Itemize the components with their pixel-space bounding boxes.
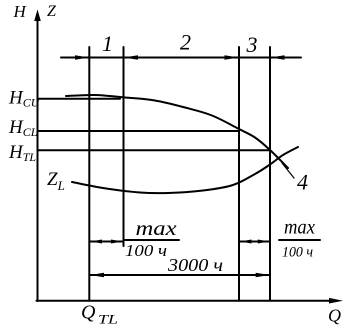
H_CL level line	[38, 130, 240, 132]
x-axis Q	[37, 300, 337, 302]
long double arrow 3000h	[90, 274, 270, 276]
H_CU level line	[38, 98, 121, 100]
fraction bar left max/100h	[125, 239, 179, 241]
y-axis arrowhead	[34, 10, 41, 22]
double arrow span 1 (max/100h left)	[90, 241, 123, 243]
svg-text:Q: Q	[328, 306, 341, 326]
svg-text:4: 4	[297, 170, 308, 195]
x-axis arrowhead	[329, 298, 343, 304]
H_TL level line	[38, 149, 271, 151]
vertical line 2	[123, 47, 125, 246]
svg-text:2: 2	[180, 30, 191, 55]
svg-text:3: 3	[246, 32, 258, 57]
vertical line 4	[269, 47, 271, 301]
y-axis H/Z	[37, 16, 39, 301]
double arrow span 3 (max/100h right)	[240, 241, 270, 243]
svg-text:Q: Q	[81, 302, 96, 324]
leader line to label 4	[282, 163, 294, 178]
svg-text:TL: TL	[98, 312, 118, 327]
vertical line 3	[238, 47, 240, 301]
svg-text:100 ч: 100 ч	[282, 245, 313, 261]
svg-text:100 ч: 100 ч	[125, 241, 167, 260]
vertical line 1	[88, 47, 90, 301]
dim arrowhead at v1	[75, 55, 89, 59]
fraction bar right max/100h	[279, 239, 320, 241]
svg-text:3000 ч: 3000 ч	[167, 255, 223, 275]
svg-text:max: max	[136, 216, 178, 240]
svg-text:H: H	[13, 2, 28, 21]
curve Z_L (lower characteristic)	[72, 147, 298, 193]
svg-text:max: max	[284, 217, 315, 239]
svg-text:Z: Z	[47, 3, 57, 20]
curve H (upper characteristic)	[66, 95, 288, 168]
top dimension line	[61, 57, 301, 59]
dim arrowhead at v2	[124, 55, 138, 59]
svg-text:1: 1	[102, 31, 113, 56]
dim arrowhead at v3	[225, 55, 239, 59]
dim arrowhead at v4	[271, 55, 285, 59]
